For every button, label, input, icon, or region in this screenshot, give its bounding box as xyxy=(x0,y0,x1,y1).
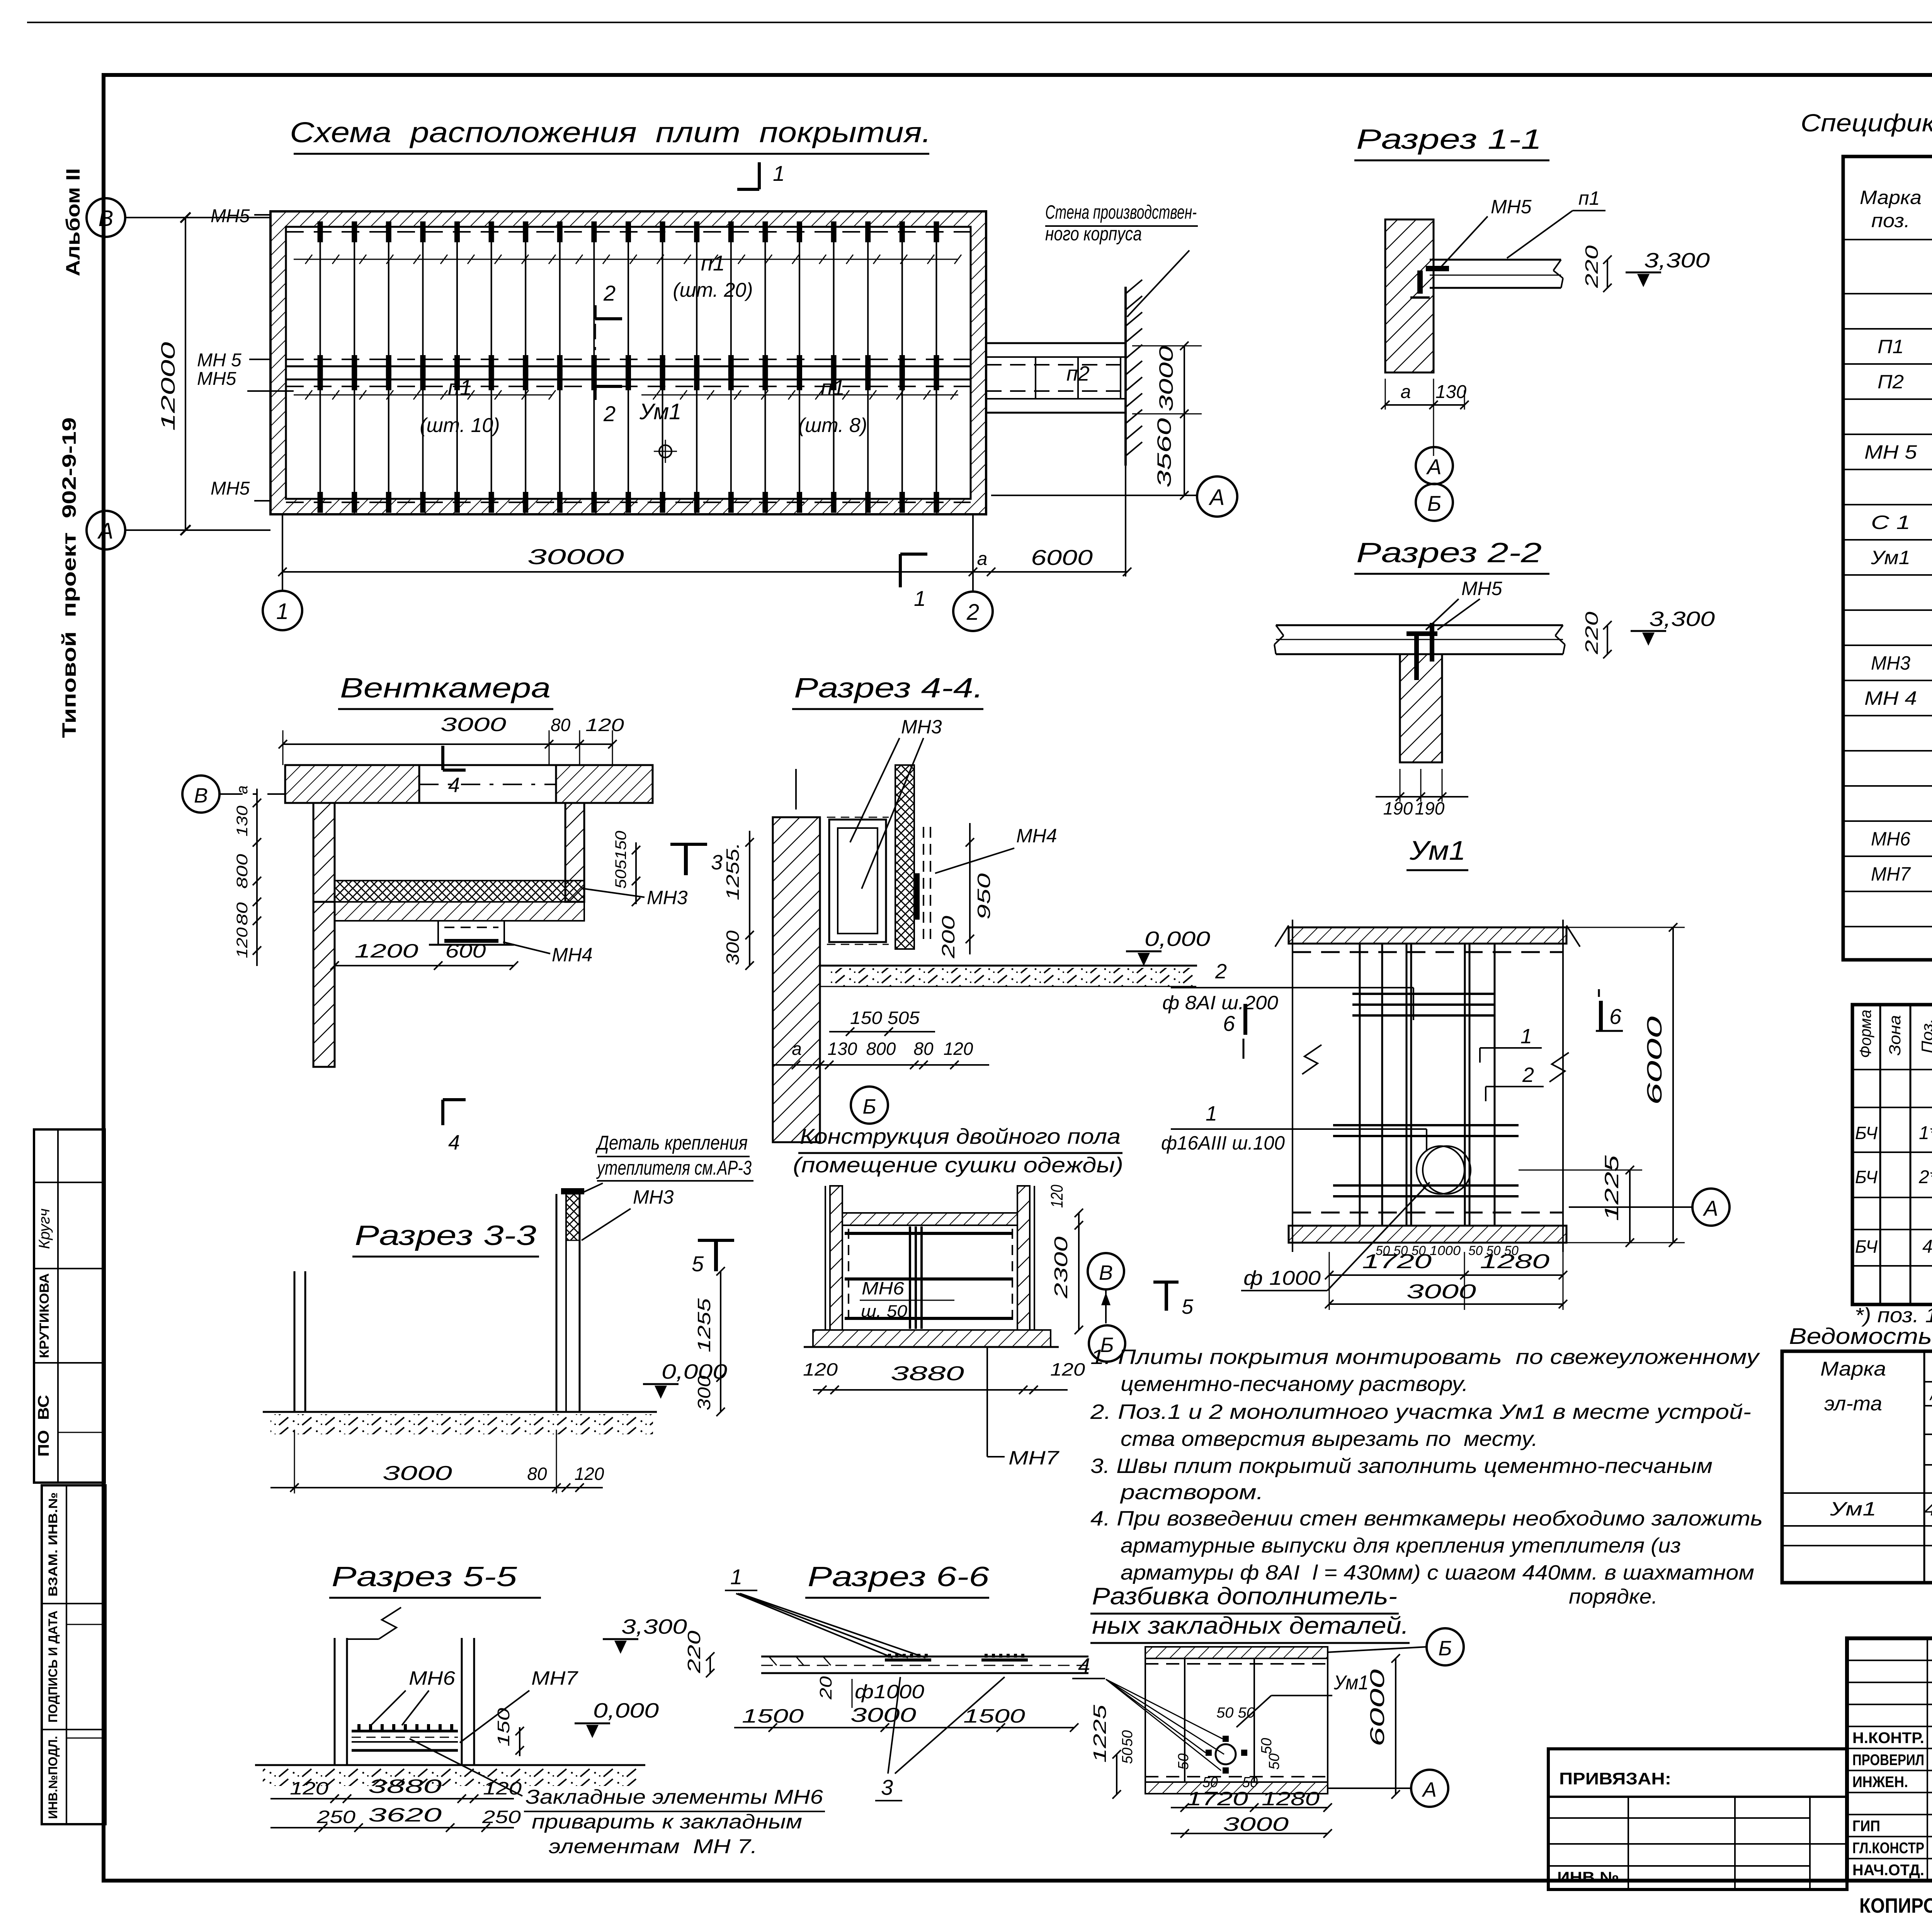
svg-text:3000: 3000 xyxy=(850,1704,916,1726)
svg-text:В: В xyxy=(1099,1261,1113,1284)
svg-text:3000: 3000 xyxy=(440,714,506,735)
svg-text:эл-та: эл-та xyxy=(1824,1393,1882,1415)
section mark 4 top xyxy=(441,746,444,770)
svg-text:1: 1 xyxy=(1520,1025,1532,1048)
svg-text:3,300: 3,300 xyxy=(621,1615,687,1638)
svg-text:В: В xyxy=(99,206,114,231)
svg-text:элементам МН 7.: элементам МН 7. xyxy=(549,1835,757,1858)
walls xyxy=(334,1638,336,1765)
walls xyxy=(830,1186,842,1330)
svg-text:1. Плиты покрытия монтировать: 1. Плиты покрытия монтировать по свежеул… xyxy=(1090,1345,1760,1369)
svg-text:(помещение сушки одежды): (помещение сушки одежды) xyxy=(793,1153,1123,1177)
floor line and ground xyxy=(820,965,1197,967)
svg-text:ф16АIII ш.100: ф16АIII ш.100 xyxy=(1161,1132,1285,1154)
dim 6000 right xyxy=(1672,927,1674,1243)
dim 1720 1280 xyxy=(1329,1274,1563,1276)
svg-text:0,000: 0,000 xyxy=(593,1699,659,1722)
svg-text:6000: 6000 xyxy=(1366,1669,1389,1747)
svg-text:80: 80 xyxy=(551,715,571,735)
anchor dot groups xyxy=(885,1658,931,1662)
svg-text:Ум1: Ум1 xyxy=(1333,1672,1369,1694)
svg-text:12000: 12000 xyxy=(157,342,179,431)
svg-text:Разрез 5-5: Разрез 5-5 xyxy=(332,1561,517,1592)
axis circle А xyxy=(1692,1189,1730,1226)
dim 30000 xyxy=(282,571,973,573)
svg-text:ства отверстия вырезать по ме: ства отверстия вырезать по месту. xyxy=(1121,1427,1538,1451)
svg-text:3880: 3880 xyxy=(891,1362,964,1385)
left stamp upper box xyxy=(34,1129,105,1483)
ground xyxy=(255,1764,645,1766)
svg-text:150 505: 150 505 xyxy=(850,1008,920,1028)
svg-text:МН6: МН6 xyxy=(409,1667,455,1689)
axis circle B xyxy=(87,198,125,237)
centre mark xyxy=(659,445,672,457)
right wall with insulation strip xyxy=(556,1194,558,1412)
svg-text:190: 190 xyxy=(1383,798,1413,818)
svg-text:800: 800 xyxy=(234,854,251,889)
section mark 4 bottom xyxy=(441,1100,444,1125)
svg-text:Альбом II: Альбом II xyxy=(62,168,84,276)
svg-text:ПРИВЯЗАН:: ПРИВЯЗАН: xyxy=(1559,1769,1671,1788)
П2 extension slab xyxy=(986,342,1126,344)
dim 220 xyxy=(1607,260,1608,288)
svg-text:30000: 30000 xyxy=(527,544,624,569)
svg-text:6000: 6000 xyxy=(1031,545,1093,570)
svg-text:50: 50 xyxy=(1175,1753,1192,1770)
svg-text:1200: 1200 xyxy=(355,940,418,962)
svg-text:БЧ: БЧ xyxy=(1855,1236,1878,1257)
dims 120 3880 120 / 250 3620 250 xyxy=(270,1798,514,1799)
embedded details xyxy=(1216,1744,1236,1764)
svg-text:ф 1000: ф 1000 xyxy=(1243,1267,1321,1289)
svg-text:Марка: Марка xyxy=(1820,1358,1886,1380)
Ум1 plan bottom hatched slab edge xyxy=(1289,1226,1566,1243)
svg-text:1280: 1280 xyxy=(1262,1788,1320,1810)
svg-text:ПОДПИСЬ И ДАТА: ПОДПИСЬ И ДАТА xyxy=(46,1611,60,1723)
upper floor hatched band xyxy=(842,1213,1017,1225)
svg-text:А: А xyxy=(1422,1778,1437,1801)
svg-text:1225: 1225 xyxy=(1601,1155,1622,1221)
svg-text:20: 20 xyxy=(816,1676,835,1700)
svg-text:ИНЖЕН.: ИНЖЕН. xyxy=(1852,1774,1908,1791)
MH6 floor assembly xyxy=(352,1730,458,1733)
svg-text:Разрез 2-2: Разрез 2-2 xyxy=(1356,537,1542,568)
svg-text:6000: 6000 xyxy=(1643,1016,1666,1105)
svg-text:Н.КОНТР.: Н.КОНТР. xyxy=(1852,1730,1924,1747)
svg-text:120: 120 xyxy=(1050,1359,1085,1379)
svg-text:Конструкция двойного пола: Конструкция двойного пола xyxy=(800,1124,1121,1148)
svg-text:Венткамера: Венткамера xyxy=(340,673,551,704)
svg-text:220: 220 xyxy=(684,1630,704,1673)
plan body xyxy=(1145,1658,1328,1782)
svg-text:2: 2 xyxy=(603,281,616,305)
svg-text:Зона: Зона xyxy=(1886,1015,1904,1056)
slab xyxy=(761,1656,1088,1658)
section mark 2 lower xyxy=(594,386,597,400)
section mark 3 right xyxy=(684,844,688,875)
signature grid xyxy=(1847,1660,1932,1661)
section mark 2 upper xyxy=(594,305,597,319)
svg-text:3,300: 3,300 xyxy=(1649,607,1715,631)
horizontal rebar groups xyxy=(1352,993,1495,995)
svg-text:МН7: МН7 xyxy=(1871,863,1911,885)
svg-text:С 1: С 1 xyxy=(1871,512,1910,533)
svg-text:ПО ВС: ПО ВС xyxy=(35,1395,52,1457)
svg-text:50: 50 xyxy=(1119,1730,1136,1747)
svg-text:5: 5 xyxy=(1182,1295,1194,1318)
svg-text:МН7: МН7 xyxy=(1009,1447,1060,1469)
svg-text:4: 4 xyxy=(1922,1236,1932,1257)
spec table grid xyxy=(1843,156,1932,960)
ПРИВЯЗАН box xyxy=(1548,1749,1847,1889)
svg-text:А: А xyxy=(1209,485,1225,510)
floor and ground xyxy=(263,1411,657,1413)
svg-text:50 50: 50 50 xyxy=(1216,1705,1255,1721)
svg-text:порядке.: порядке. xyxy=(1569,1585,1658,1608)
svg-text:5: 5 xyxy=(692,1252,704,1276)
title block outer xyxy=(1847,1638,1932,1881)
svg-text:Б: Б xyxy=(862,1095,876,1118)
svg-text:Б: Б xyxy=(1438,1637,1452,1660)
MH6 dashed box with rebars xyxy=(848,1229,849,1325)
svg-text:ГИП: ГИП xyxy=(1852,1818,1880,1835)
bottom slab xyxy=(813,1330,1051,1347)
svg-text:КОПИРОВАЛ: ЛОГИНОВА: КОПИРОВАЛ: ЛОГИНОВА xyxy=(1859,1894,1932,1917)
svg-text:3560: 3560 xyxy=(1153,418,1175,488)
svg-text:Разрез 6-6: Разрез 6-6 xyxy=(808,1561,990,1592)
svg-text:(шт. 10): (шт. 10) xyxy=(420,414,500,437)
svg-text:арматурные выпуски для креплен: арматурные выпуски для крепления утеплит… xyxy=(1121,1534,1681,1557)
svg-text:120: 120 xyxy=(234,927,251,958)
svg-text:1500: 1500 xyxy=(742,1705,804,1727)
svg-text:6: 6 xyxy=(1609,1004,1622,1029)
svg-text:0,000: 0,000 xyxy=(1145,927,1210,951)
dim a 130 xyxy=(1385,404,1464,406)
section mark 1 top xyxy=(758,162,761,189)
plan: top hatched band xyxy=(1145,1647,1328,1658)
steel table grid xyxy=(1782,1351,1932,1583)
svg-text:600: 600 xyxy=(446,940,486,962)
svg-text:2: 2 xyxy=(603,401,616,426)
svg-text:3620: 3620 xyxy=(368,1804,442,1826)
svg-text:МН3: МН3 xyxy=(1871,652,1910,674)
svg-text:3: 3 xyxy=(711,851,723,874)
svg-text:а: а xyxy=(792,1039,802,1059)
svg-text:80: 80 xyxy=(234,902,251,925)
svg-text:МН5: МН5 xyxy=(197,369,236,389)
svg-text:2. Поз.1 и 2 монолитного участ: 2. Поз.1 и 2 монолитного участка Ум1 в м… xyxy=(1090,1400,1751,1423)
plate group extent lines xyxy=(294,259,958,260)
svg-text:п1: п1 xyxy=(821,375,845,400)
svg-text:(шт. 8): (шт. 8) xyxy=(798,414,867,437)
svg-text:50: 50 xyxy=(1259,1738,1275,1754)
svg-text:3. Швы плит покрытий заполнить: 3. Швы плит покрытий заполнить цементно-… xyxy=(1090,1454,1713,1478)
svg-text:42,5: 42,5 xyxy=(1924,1499,1932,1520)
svg-text:раствором.: раствором. xyxy=(1120,1481,1264,1504)
svg-text:1255: 1255 xyxy=(694,1298,714,1352)
svg-text:505150: 505150 xyxy=(612,831,629,889)
svg-text:БЧ: БЧ xyxy=(1855,1123,1878,1143)
column below xyxy=(1400,654,1442,762)
svg-text:Ум1: Ум1 xyxy=(1871,547,1910,568)
svg-text:1: 1 xyxy=(276,599,289,624)
MH5 anchors xyxy=(1406,631,1437,636)
svg-text:(шт. 20): (шт. 20) xyxy=(673,279,753,301)
svg-text:Схема расположения плит пок: Схема расположения плит покрытия. xyxy=(290,116,931,148)
svg-text:Ум1: Ум1 xyxy=(1409,835,1466,866)
svg-text:БЧ: БЧ xyxy=(1855,1167,1878,1187)
svg-text:поз.: поз. xyxy=(1871,210,1910,231)
svg-text:МН5: МН5 xyxy=(211,206,250,226)
top slab hatched xyxy=(285,765,419,803)
section mark 6 right xyxy=(1599,1001,1603,1032)
svg-text:Типовой проект 902-9-19: Типовой проект 902-9-19 xyxy=(58,417,80,738)
svg-text:0,000: 0,000 xyxy=(662,1360,727,1383)
dim 12000 xyxy=(185,218,186,530)
svg-text:Деталь крепления: Деталь крепления xyxy=(595,1132,748,1154)
right wall with insulation xyxy=(895,765,914,949)
svg-text:6: 6 xyxy=(1223,1011,1235,1036)
svg-text:1225: 1225 xyxy=(1090,1704,1110,1763)
dim 1200 600 xyxy=(335,965,514,966)
svg-text:а: а xyxy=(1401,382,1411,402)
svg-text:П2: П2 xyxy=(1878,371,1904,393)
svg-text:В: В xyxy=(194,784,208,807)
hole ф1000 xyxy=(1417,1146,1464,1194)
axis circle 1 xyxy=(263,591,302,630)
svg-text:3,300: 3,300 xyxy=(1644,249,1710,272)
dim 1255 300 xyxy=(720,1271,721,1412)
svg-text:А: А xyxy=(97,519,114,544)
dim 220 xyxy=(709,1656,711,1673)
svg-text:Форма: Форма xyxy=(1856,1010,1874,1058)
svg-text:120: 120 xyxy=(575,1464,604,1484)
svg-text:Спецификация элементов к схеме: Спецификация элементов к схеме расположе… xyxy=(1801,109,1932,137)
dims 1720 1280 3000 xyxy=(1171,1807,1328,1808)
svg-text:3000: 3000 xyxy=(383,1462,452,1485)
svg-text:130: 130 xyxy=(234,806,251,837)
svg-text:1000: 1000 xyxy=(1430,1243,1461,1258)
dim 190 190 xyxy=(1376,796,1468,798)
section mark 5 xyxy=(1153,1281,1179,1284)
svg-text:МН6: МН6 xyxy=(862,1278,904,1298)
svg-text:250: 250 xyxy=(482,1807,521,1827)
МН7 callout xyxy=(986,1347,988,1457)
axis circle A xyxy=(87,511,125,549)
svg-text:120: 120 xyxy=(803,1359,838,1379)
svg-text:120: 120 xyxy=(944,1039,973,1059)
axis circles Б А xyxy=(1427,1628,1464,1665)
svg-text:220: 220 xyxy=(1582,245,1602,288)
plate joint lines and MH5 anchor ticks xyxy=(320,227,321,499)
svg-text:1720: 1720 xyxy=(1186,1788,1248,1810)
svg-text:П1: П1 xyxy=(1878,336,1904,357)
dim 3000 xyxy=(1329,1303,1563,1305)
svg-text:КРУТИКОВА: КРУТИКОВА xyxy=(37,1273,52,1358)
svg-text:3000: 3000 xyxy=(1406,1281,1476,1303)
svg-text:А: А xyxy=(1702,1196,1718,1220)
svg-text:а: а xyxy=(977,549,988,569)
svg-text:2: 2 xyxy=(966,600,979,625)
floor: insulation cross-hatch + slab xyxy=(335,881,584,902)
dim 6000 xyxy=(1395,1658,1396,1794)
svg-text:2300: 2300 xyxy=(1051,1236,1071,1299)
svg-text:950: 950 xyxy=(974,873,994,920)
svg-text:2: 2 xyxy=(1215,960,1227,983)
vertical rebars xyxy=(1359,944,1361,1226)
dims a 130 800 80 120 xyxy=(773,1064,989,1066)
svg-text:МН 5: МН 5 xyxy=(197,350,241,371)
axis circle A right xyxy=(1197,476,1237,517)
svg-text:130: 130 xyxy=(1435,382,1466,402)
dim 1255 300 left xyxy=(749,831,750,966)
dim 950 200 xyxy=(969,823,971,954)
svg-text:ВЗАМ. ИНВ.№: ВЗАМ. ИНВ.№ xyxy=(46,1492,60,1597)
svg-text:Поз.: Поз. xyxy=(1918,1019,1932,1053)
svg-text:МН 5: МН 5 xyxy=(1864,441,1917,463)
break zigzag top xyxy=(379,1607,401,1639)
svg-text:250: 250 xyxy=(316,1807,356,1827)
svg-text:МН6: МН6 xyxy=(1871,828,1910,850)
svg-text:Разрез 1-1: Разрез 1-1 xyxy=(1356,124,1542,155)
svg-text:300: 300 xyxy=(723,930,743,965)
dims 3000 80 120 xyxy=(270,1487,603,1488)
svg-text:220: 220 xyxy=(1582,611,1602,655)
svg-text:МН5: МН5 xyxy=(211,478,250,499)
svg-text:ф 8АI ш.200: ф 8АI ш.200 xyxy=(1162,992,1278,1014)
left wall hatched xyxy=(773,817,820,1142)
svg-text:Разбивка дополнитель-: Разбивка дополнитель- xyxy=(1092,1583,1397,1610)
svg-text:*) поз. 1, 2 см. Ведомость: *) поз. 1, 2 см. Ведомость деталей. xyxy=(1855,1304,1932,1327)
svg-text:ных закладных деталей.: ных закладных деталей. xyxy=(1092,1612,1409,1639)
svg-text:1720: 1720 xyxy=(1362,1250,1432,1273)
svg-text:1280: 1280 xyxy=(1480,1250,1549,1273)
svg-text:4: 4 xyxy=(448,1131,460,1154)
break marks xyxy=(1302,1045,1321,1074)
svg-text:Ум1: Ум1 xyxy=(639,399,681,424)
svg-text:утеплителя см.АР-3: утеплителя см.АР-3 xyxy=(596,1157,752,1179)
svg-text:3000: 3000 xyxy=(1223,1813,1289,1835)
left wall lines xyxy=(294,1271,296,1412)
svg-text:800: 800 xyxy=(866,1039,896,1059)
svg-text:Кругч: Кругч xyxy=(36,1209,53,1249)
svg-text:МН7: МН7 xyxy=(531,1667,578,1689)
svg-text:190: 190 xyxy=(1415,798,1445,818)
svg-text:Закладные элементы МН6: Закладные элементы МН6 xyxy=(526,1786,823,1808)
svg-text:МН5: МН5 xyxy=(1491,196,1532,218)
svg-text:120: 120 xyxy=(1048,1185,1066,1208)
svg-text:150: 150 xyxy=(494,1708,513,1747)
production building wall xyxy=(1124,287,1127,466)
svg-text:МН 4: МН 4 xyxy=(1864,687,1917,709)
right wall of pit xyxy=(565,803,584,902)
svg-text:80: 80 xyxy=(913,1039,934,1059)
svg-text:МН3: МН3 xyxy=(633,1186,674,1208)
side edge lines xyxy=(1292,920,1293,1252)
axis circles В Б xyxy=(1088,1253,1124,1289)
svg-text:Ум1: Ум1 xyxy=(1830,1498,1876,1520)
svg-text:п1: п1 xyxy=(448,375,472,400)
svg-text:а: а xyxy=(234,786,251,794)
left wall xyxy=(313,803,335,1067)
dims above: 3000 80 120 xyxy=(283,743,612,745)
svg-text:120: 120 xyxy=(483,1778,522,1798)
svg-text:А: А xyxy=(1426,454,1441,479)
svg-text:МН4: МН4 xyxy=(1016,825,1057,847)
svg-text:4: 4 xyxy=(1078,1653,1090,1678)
slab lines xyxy=(1276,624,1563,626)
left stamp lower box xyxy=(42,1485,105,1824)
svg-text:4. При возведении стен венткам: 4. При возведении стен венткамеры необхо… xyxy=(1090,1507,1763,1530)
svg-text:1*: 1* xyxy=(1919,1123,1932,1143)
svg-text:п1: п1 xyxy=(701,251,725,275)
svg-text:ф1000: ф1000 xyxy=(855,1681,924,1702)
svg-text:3000: 3000 xyxy=(1155,346,1177,412)
svg-text:50: 50 xyxy=(1119,1748,1136,1764)
svg-text:МН3: МН3 xyxy=(647,887,688,908)
dim 150 xyxy=(519,1727,520,1756)
svg-text:1255.: 1255. xyxy=(723,842,743,900)
plan outer hatched walls xyxy=(270,211,986,514)
slab п1 xyxy=(1430,259,1561,261)
section 1-1 wall xyxy=(1385,219,1434,372)
bottom hatched band xyxy=(1145,1782,1328,1794)
svg-text:2*: 2* xyxy=(1918,1167,1932,1187)
dim 6000 xyxy=(973,571,1127,573)
svg-text:ИНВ.№: ИНВ.№ xyxy=(1557,1869,1619,1886)
svg-text:Разрез 4-4.: Разрез 4-4. xyxy=(794,673,983,704)
dims 120 3880 120 xyxy=(813,1389,1068,1391)
svg-text:арматуры ф 8АI l = 430мм) с ш: арматуры ф 8АI l = 430мм) с шагом 440мм.… xyxy=(1121,1561,1754,1584)
svg-text:ИНВ.№ПОДЛ.: ИНВ.№ПОДЛ. xyxy=(46,1736,60,1819)
svg-text:2: 2 xyxy=(1522,1063,1534,1087)
svg-text:МН3: МН3 xyxy=(901,716,942,738)
dim 1225 xyxy=(1629,1170,1631,1243)
svg-text:80: 80 xyxy=(527,1464,547,1484)
svg-text:ш. 50: ш. 50 xyxy=(861,1302,908,1321)
Ум1 plan top hatched slab edge xyxy=(1289,927,1566,944)
svg-text:НАЧ.ОТД.: НАЧ.ОТД. xyxy=(1852,1862,1924,1879)
dim 220 xyxy=(1607,625,1608,654)
plan dashed anchor lines xyxy=(286,231,971,233)
svg-text:МН5: МН5 xyxy=(1461,578,1502,599)
svg-text:50: 50 xyxy=(1266,1753,1282,1770)
dims 3000 3560 right xyxy=(1184,346,1185,495)
svg-text:3: 3 xyxy=(881,1775,893,1799)
svg-text:МН4: МН4 xyxy=(552,944,593,966)
monolith table grid xyxy=(1852,1005,1932,1304)
svg-text:Стена производствен-: Стена производствен- xyxy=(1045,201,1197,223)
svg-text:п1: п1 xyxy=(1578,187,1600,209)
svg-text:п2: п2 xyxy=(1066,362,1090,385)
svg-text:приварить к закладным: приварить к закладным xyxy=(532,1811,802,1833)
svg-text:Разрез 3-3: Разрез 3-3 xyxy=(355,1220,536,1251)
svg-text:1: 1 xyxy=(914,586,926,611)
svg-text:1: 1 xyxy=(730,1565,742,1589)
axis B circle xyxy=(182,776,219,813)
axis circle 2 xyxy=(953,592,993,631)
svg-text:Б: Б xyxy=(1427,491,1441,515)
svg-text:ГЛ.КОНСТР: ГЛ.КОНСТР xyxy=(1852,1840,1924,1857)
left wall lower leg xyxy=(313,902,335,1067)
window frame xyxy=(829,820,886,942)
svg-text:1: 1 xyxy=(1206,1102,1217,1125)
svg-text:Марка: Марка xyxy=(1860,187,1922,208)
MH5 weld detail xyxy=(1426,266,1449,271)
dashed plate edges xyxy=(1293,951,1563,953)
svg-text:1500: 1500 xyxy=(963,1705,1025,1727)
svg-text:120: 120 xyxy=(290,1778,329,1798)
